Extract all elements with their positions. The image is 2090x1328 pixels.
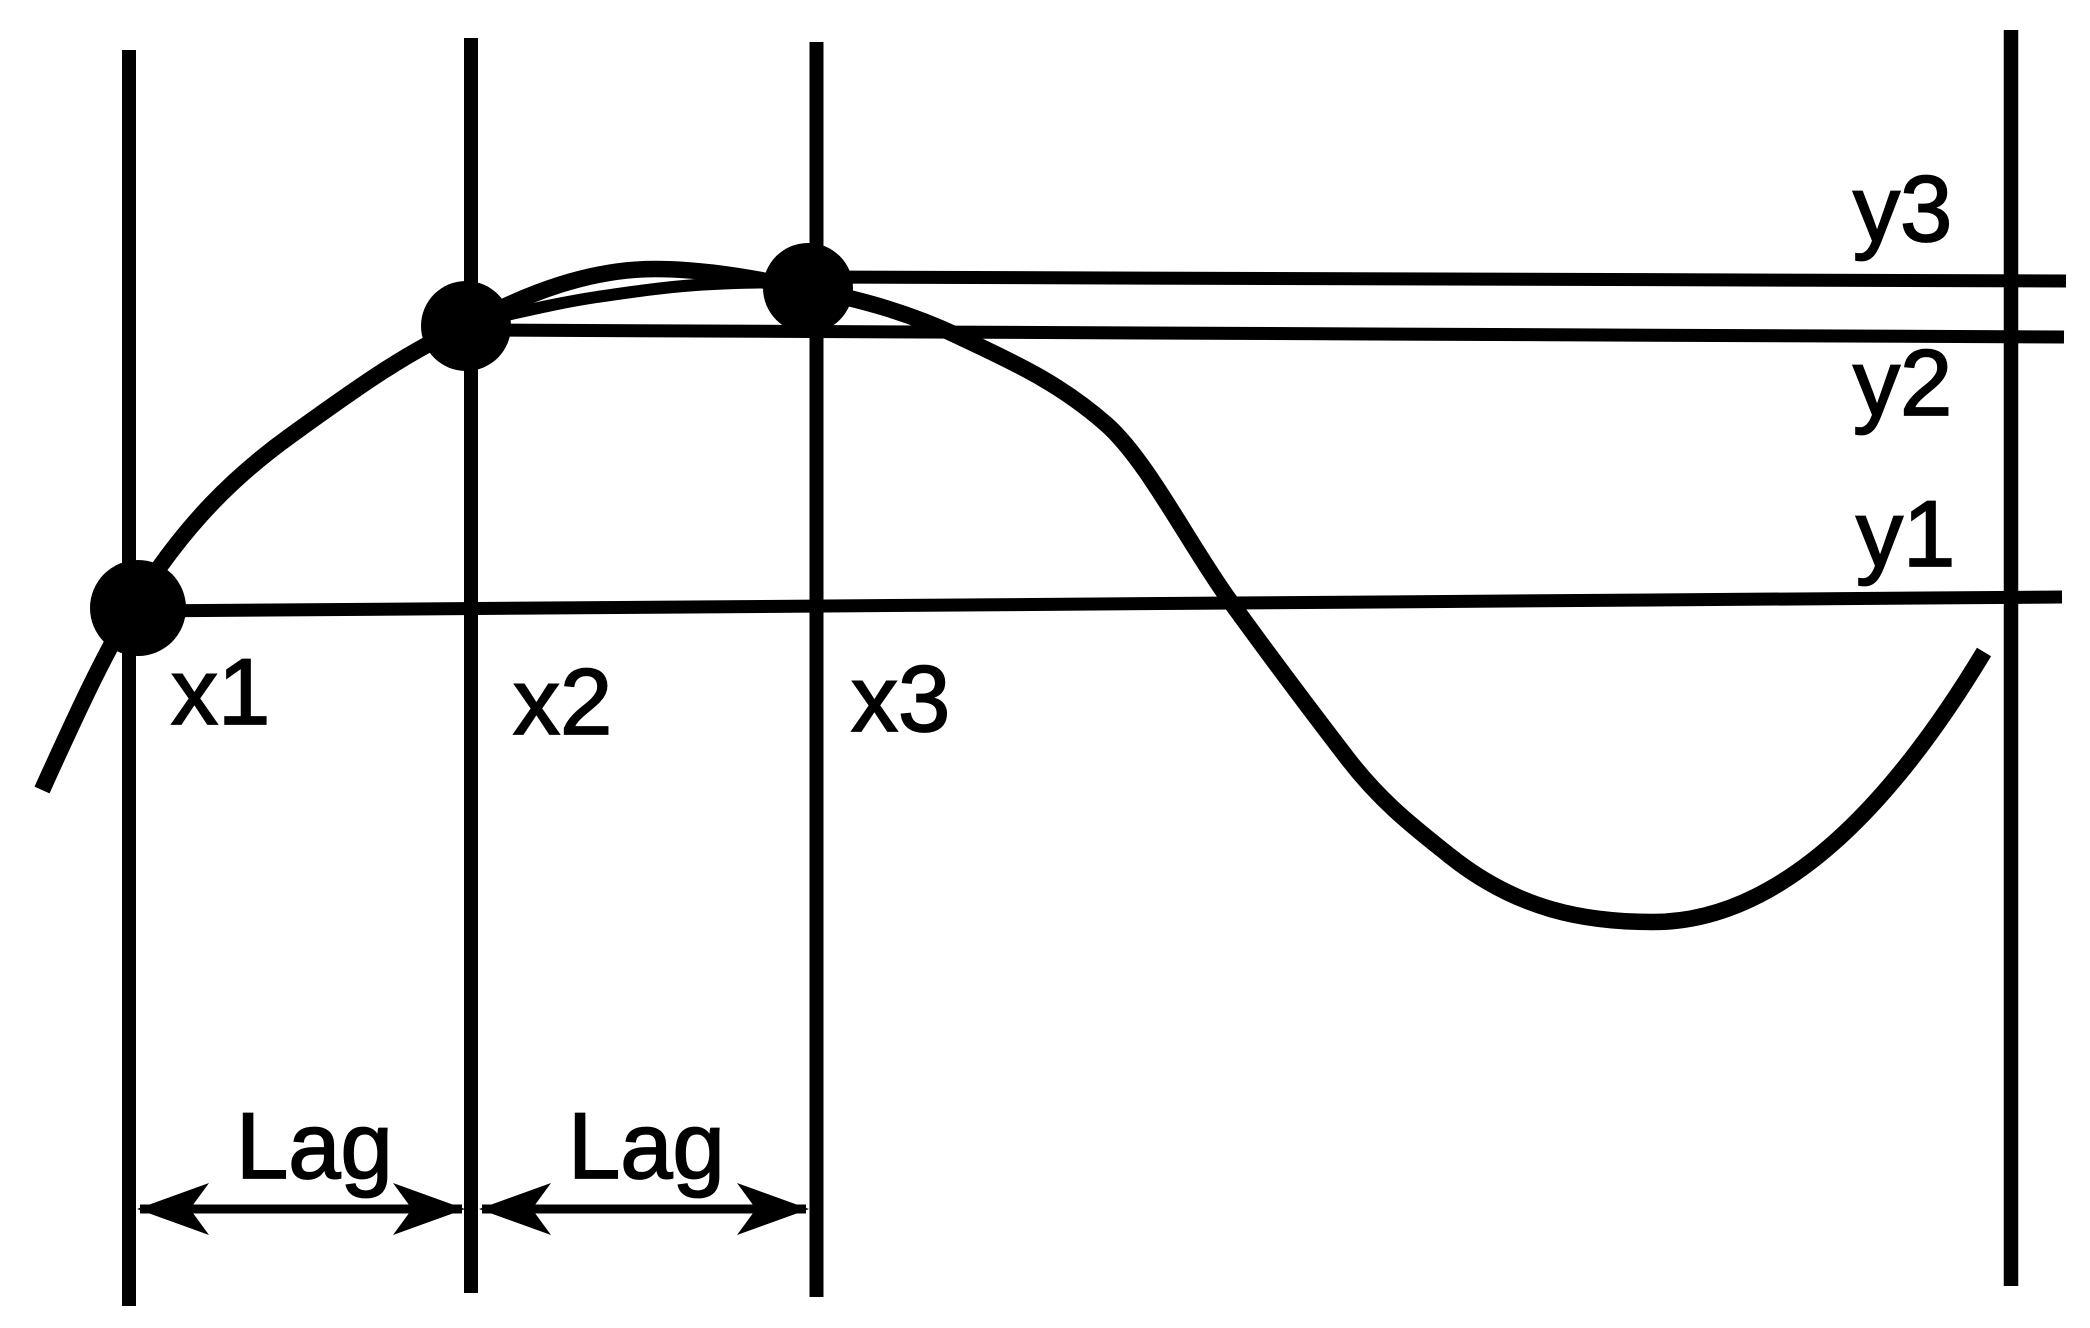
svg-text:y1: y1 — [1856, 481, 1955, 586]
vertical line x3 — [810, 42, 824, 1297]
sample dot at (x1,y1) — [90, 560, 186, 656]
secant chord from dot2 to dot3 — [480, 282, 808, 321]
vertical line right border — [2004, 30, 2019, 1286]
dimension arrow shaft between x2 and x3 — [482, 1205, 806, 1214]
horizontal line y3 — [808, 277, 2066, 281]
dimension arrow shaft between x1 and x2 — [140, 1205, 462, 1214]
vertical line x1 — [122, 50, 136, 1306]
svg-text:x1: x1 — [171, 639, 270, 744]
vertical line x2 — [464, 38, 478, 1293]
sample dot at (x2,y2) — [421, 281, 511, 371]
svg-text:y2: y2 — [1853, 330, 1952, 435]
svg-text:Lag: Lag — [568, 1093, 725, 1198]
sample dot at (x3,y3) — [763, 243, 853, 333]
svg-text:y3: y3 — [1853, 156, 1952, 261]
svg-text:Lag: Lag — [236, 1093, 393, 1198]
horizontal line y2 — [466, 330, 2064, 337]
svg-text:x2: x2 — [513, 649, 612, 754]
left arrowhead of first Lag arrow — [137, 1183, 209, 1235]
svg-text:x3: x3 — [851, 646, 950, 751]
left arrowhead of second Lag arrow — [479, 1183, 551, 1235]
right arrowhead of second Lag arrow — [737, 1183, 809, 1235]
sine curve — [42, 269, 1984, 922]
horizontal line y1 — [138, 597, 2062, 611]
right arrowhead of first Lag arrow — [393, 1183, 465, 1235]
